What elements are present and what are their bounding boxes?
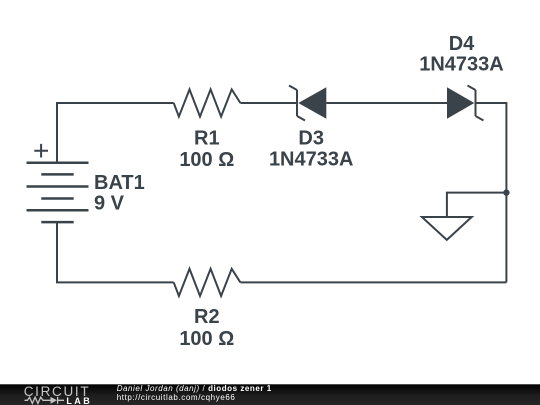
battery BAT1 plates: [27, 163, 89, 222]
svg-text:R1: R1: [194, 128, 220, 150]
wire: junction to ground branch: [447, 193, 507, 217]
resistor R1: [174, 89, 241, 116]
svg-text:Daniel Jordan (danj) / diodos: Daniel Jordan (danj) / diodos zener 1: [117, 384, 272, 393]
wire: bottom rail left segment and battery negative terminal: [57, 222, 174, 282]
svg-text:1N4733A: 1N4733A: [419, 54, 504, 76]
battery plus sign: [34, 144, 48, 158]
node: junction on right rail: [503, 189, 509, 195]
svg-text:R2: R2: [194, 306, 220, 328]
ground: [422, 217, 472, 240]
svg-text:http://circuitlab.com/cqhye66: http://circuitlab.com/cqhye66: [117, 393, 236, 402]
wire: bottom rail right segment: [240, 281, 506, 283]
footer bar: [0, 384, 540, 405]
wire: D3 to D4: [326, 102, 447, 104]
diode D3 (zener 1N4733A): [289, 86, 326, 121]
wire: battery positive terminal up and top rail to R1: [57, 103, 174, 163]
resistor R2: [174, 269, 241, 296]
svg-text:BAT1: BAT1: [94, 172, 145, 194]
svg-text:100 Ω: 100 Ω: [179, 149, 234, 171]
svg-text:D4: D4: [449, 33, 475, 55]
wire: R1 to D3: [240, 102, 297, 104]
footer logo circuit doodle (resistor + diode): [25, 397, 65, 404]
svg-text:D3: D3: [298, 128, 324, 150]
svg-text:1N4733A: 1N4733A: [269, 149, 354, 171]
diode D4 (zener 1N4733A): [447, 86, 484, 121]
svg-text:100 Ω: 100 Ω: [179, 328, 234, 350]
svg-text:9 V: 9 V: [94, 192, 125, 214]
wire: D4 to top-right corner and right rail down: [476, 103, 507, 282]
svg-text:LAB: LAB: [66, 396, 92, 405]
